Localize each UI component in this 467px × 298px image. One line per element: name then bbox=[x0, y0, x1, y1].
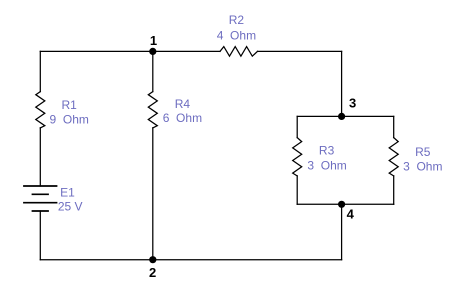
svg-text:6 Ohm: 6 Ohm bbox=[163, 111, 202, 125]
wire: left rail lower (battery E1 to bottom rail) bbox=[39, 211, 41, 260]
svg-text:25 V: 25 V bbox=[58, 200, 83, 214]
node 1 junction dot bbox=[149, 48, 156, 55]
svg-text:R2: R2 bbox=[229, 13, 245, 27]
node 4 junction dot bbox=[338, 201, 345, 208]
svg-text:R1: R1 bbox=[62, 98, 78, 112]
wire: left rail middle (R1 to battery E1) bbox=[39, 128, 41, 186]
resistor R5 zigzag bbox=[389, 138, 398, 176]
node 2 junction dot bbox=[149, 256, 156, 263]
svg-text:2: 2 bbox=[149, 265, 156, 280]
wire: parallel section top (node 3 tee) bbox=[297, 115, 394, 117]
wire: parallel section bottom (node 4 tee) bbox=[297, 203, 394, 205]
resistor R3 zigzag bbox=[293, 138, 302, 176]
svg-text:1: 1 bbox=[150, 33, 157, 48]
battery E1 plates bbox=[23, 186, 57, 211]
wire: parallel right branch upper (to R5) bbox=[393, 116, 395, 137]
svg-text:3 Ohm: 3 Ohm bbox=[307, 158, 346, 172]
resistor R2 zigzag bbox=[220, 47, 258, 57]
wire: parallel right branch lower (R5 to bottom) bbox=[393, 176, 395, 204]
svg-text:3: 3 bbox=[349, 95, 356, 110]
svg-text:R3: R3 bbox=[319, 143, 335, 157]
wire: bottom rail (left corner through node 2 to right corner) bbox=[40, 259, 341, 261]
resistor R4 zigzag bbox=[148, 92, 157, 128]
wire: top-left horizontal (left rail to node 1) bbox=[40, 50, 153, 52]
svg-text:E1: E1 bbox=[60, 186, 75, 200]
wire: top-right corner down to node 3 bbox=[341, 51, 343, 116]
svg-text:3 Ohm: 3 Ohm bbox=[403, 160, 442, 174]
wire: middle rail lower (R4 to node 2) bbox=[152, 128, 154, 260]
wire: parallel left branch lower (R3 to bottom) bbox=[296, 176, 298, 204]
wire: left rail upper (top corner to R1) bbox=[39, 51, 41, 91]
wire: node 4 down to bottom rail bbox=[341, 204, 343, 259]
svg-text:9 Ohm: 9 Ohm bbox=[50, 112, 89, 126]
wire: middle rail upper (node 1 to R4) bbox=[152, 51, 154, 91]
svg-text:R5: R5 bbox=[415, 145, 431, 159]
svg-text:4: 4 bbox=[347, 206, 355, 221]
svg-text:R4: R4 bbox=[175, 97, 191, 111]
wire: parallel left branch upper (to R3) bbox=[296, 116, 298, 137]
svg-text:4 Ohm: 4 Ohm bbox=[217, 29, 256, 43]
wire: R2 right lead to top-right corner bbox=[258, 50, 342, 52]
wire: node 1 to R2 left lead bbox=[153, 50, 220, 52]
node 3 junction dot bbox=[338, 113, 345, 120]
resistor R1 zigzag bbox=[36, 92, 45, 128]
